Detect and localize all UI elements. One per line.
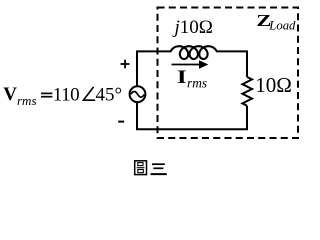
svg-text:45°: 45° bbox=[96, 84, 123, 105]
svg-text:Load: Load bbox=[268, 19, 296, 33]
svg-text:rms: rms bbox=[17, 93, 37, 108]
svg-text:rms: rms bbox=[187, 76, 207, 91]
svg-text:10Ω: 10Ω bbox=[255, 73, 292, 97]
svg-text:I: I bbox=[177, 66, 187, 87]
svg-text:110: 110 bbox=[53, 84, 79, 105]
svg-text:V: V bbox=[3, 84, 17, 105]
svg-text:j10Ω: j10Ω bbox=[172, 17, 213, 38]
